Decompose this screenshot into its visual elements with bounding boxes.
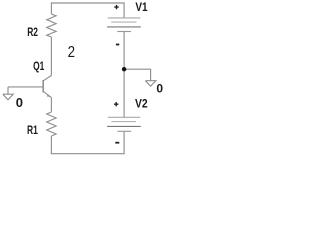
wire node to V2 plus [123,69,125,117]
voltage source V2 [107,117,141,131]
wire top rail [51,3,124,18]
V2 plus sign [114,102,118,106]
svg-text:Q1: Q1 [33,59,44,73]
voltage source V1 [107,18,141,32]
V2 minus sign [115,142,119,144]
ground left [3,87,13,100]
svg-text:V2: V2 [135,97,148,111]
wire node to right ground [124,69,151,81]
svg-text:0: 0 [156,81,163,95]
wire Q1 emitter to R1 [50,98,52,112]
svg-text:V1: V1 [135,0,147,14]
transistor Q1 [43,76,51,81]
svg-text:R1: R1 [27,123,38,137]
node junction dot [122,67,126,71]
svg-text:0: 0 [16,95,23,110]
resistor R2 [47,14,56,37]
svg-text:2: 2 [68,44,75,61]
resistor R1 [47,112,56,136]
V1 minus sign [116,44,119,46]
wire V1 minus to node [123,32,125,70]
ground right [145,81,155,87]
svg-text:R2: R2 [27,25,38,39]
wire R2 to Q1 collector [50,37,52,76]
wire base lead [8,86,43,88]
wire bottom rail [51,131,124,153]
V1 plus sign [114,5,118,9]
